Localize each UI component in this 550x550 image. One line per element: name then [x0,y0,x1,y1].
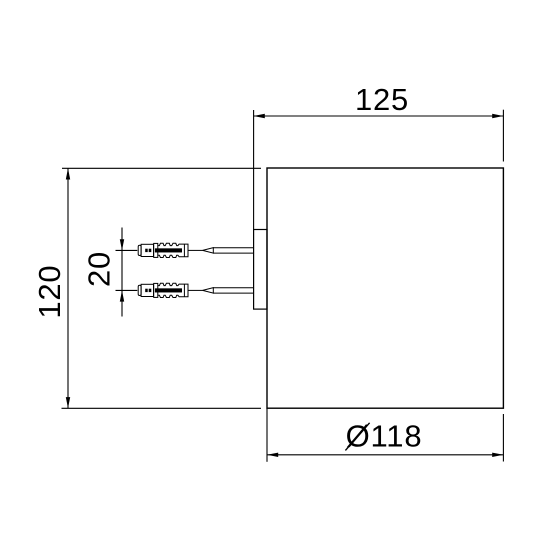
svg-text:120: 120 [32,265,67,319]
screw assembly top [138,243,253,257]
dimension 125: extension line left [253,110,255,230]
fixture body (cylinder, side view) [267,168,503,408]
dimension 125: extension line right [502,110,504,162]
dimension 120: extension line top [62,167,261,169]
dimension D118: arrow left [267,453,278,457]
dimension D118: dimension line [267,454,503,456]
screw assembly bottom [138,283,253,297]
dimension 120: extension line bottom [62,407,262,409]
dimension D118: arrow right [492,453,503,457]
dimension D118: label [345,419,422,454]
dimension D118: extension line right [502,414,504,462]
dimension 20: arrow bottom (outside, pointing up) [120,290,124,301]
dimension D118: extension line left [266,408,268,462]
svg-text:125: 125 [355,82,409,117]
dimension 120: dimension line [67,168,69,408]
dimension 125: dimension line [254,115,504,117]
dimension 20: extension line top [116,249,138,251]
dimension 120: arrow bottom [66,397,70,408]
dimension 20: extension line bottom [116,289,138,291]
dimension 20: arrow top (outside, pointing down) [120,239,124,250]
dimension 125: arrow left [254,114,265,118]
wall mounting plate [254,230,267,310]
dimension 20: dimension line [121,228,123,317]
dimension 125: arrow right [492,114,503,118]
dimension 120: arrow top [66,168,70,179]
svg-text:20: 20 [82,251,117,287]
